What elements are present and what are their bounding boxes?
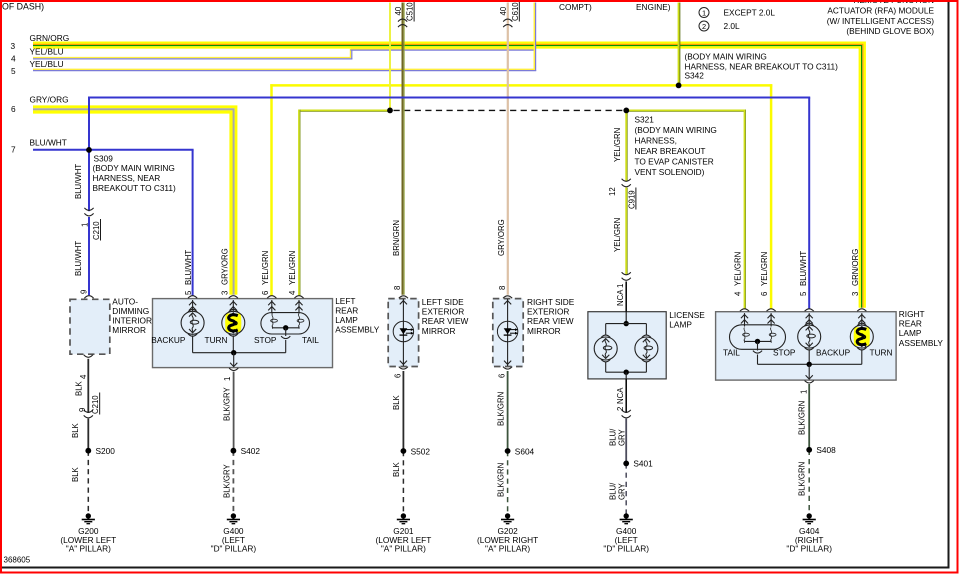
right rear lamp pin 6 entry chevrons (768, 313, 775, 326)
left rear lamp internal bus (193, 335, 286, 352)
svg-text:DIMMING: DIMMING (112, 306, 149, 316)
svg-text:1: 1 (799, 390, 808, 394)
svg-text:ASSEMBLY: ASSEMBLY (899, 338, 944, 348)
left rear lamp stadium inner tie with junction (273, 325, 300, 336)
svg-text:YEL/BLU: YEL/BLU (30, 47, 64, 57)
svg-text:ENGINE): ENGINE) (636, 2, 671, 12)
label license lamp (669, 310, 705, 330)
ground G202 symbol (501, 513, 514, 523)
left rear lamp TAIL filament (297, 314, 304, 329)
svg-text:YEL/GRN: YEL/GRN (734, 252, 743, 286)
wire YEL/BLU circuit 4: lower-left run from pin 4 (33, 58, 352, 59)
svg-text:EXTERIOR: EXTERIOR (422, 307, 464, 317)
wire BLU/GRY: dashed from S401 to ground G400 (625, 463, 627, 513)
svg-text:REAR VIEW: REAR VIEW (422, 316, 469, 326)
label pin 6 YEL/GRN right lamp (760, 252, 769, 296)
right rear lamp BACKUP bulb (798, 323, 821, 350)
black inner frame bottom (0, 567, 950, 569)
ground G404 symbol (803, 513, 816, 523)
svg-text:BLK/GRN: BLK/GRN (797, 401, 806, 435)
svg-text:MIRROR: MIRROR (112, 325, 146, 335)
right rear lamp exit arc below box (805, 381, 814, 384)
svg-text:1: 1 (702, 9, 706, 18)
label ground G202 (477, 526, 538, 554)
label splice S321 note (635, 115, 717, 178)
svg-text:LEFT: LEFT (335, 296, 355, 306)
svg-text:S604: S604 (515, 447, 535, 457)
svg-text:3: 3 (221, 291, 230, 295)
inline connector below license lamp (622, 410, 631, 418)
wire YEL/BLU: vertical pair from page top at x=534.5 (534, 3, 535, 71)
ground G400 symbol (left D pillar, under S401) (620, 513, 633, 523)
label ground G200 (60, 526, 116, 554)
label wire 5 YEL/BLU (11, 59, 64, 76)
svg-text:BLK/GRN: BLK/GRN (797, 462, 806, 496)
right rear lamp pin 4 entry arc (740, 309, 749, 312)
svg-text:VENT SOLENOID): VENT SOLENOID) (635, 167, 705, 177)
svg-text:OF DASH): OF DASH) (2, 2, 44, 12)
right rear lamp internal bus junction dot (807, 362, 812, 367)
auto-dimming mirror pin 9 entry arc (84, 296, 93, 299)
right rear lamp TURN bulb highlight (854, 327, 870, 346)
wire BLU/WHT: long horizontal run y=97.5 to right rear lamp (88, 97, 810, 99)
circled note 2 (699, 21, 709, 31)
svg-text:YEL/GRN: YEL/GRN (613, 128, 622, 162)
svg-text:YEL/GRN: YEL/GRN (261, 251, 270, 285)
svg-text:GRY/ORG: GRY/ORG (497, 219, 506, 256)
wire NCA: license lamp pin 2 down to inline connector (625, 379, 627, 413)
left rear lamp BACKUP bulb (181, 309, 204, 336)
wire BLU/WHT: branch from S309 to left rear lamp (89, 149, 194, 151)
svg-text:C510: C510 (406, 2, 415, 21)
svg-text:S309: S309 (94, 154, 114, 164)
label left side exterior rear view mirror (422, 297, 469, 336)
svg-text:(W/ INTELLIGENT ACCESS): (W/ INTELLIGENT ACCESS) (827, 16, 935, 26)
svg-text:NCA: NCA (616, 289, 625, 306)
svg-text:NCA: NCA (616, 387, 625, 404)
splice S321 junction dot (623, 108, 629, 114)
svg-text:S502: S502 (411, 447, 431, 457)
left mirror pin 6 exit arc (399, 367, 408, 370)
svg-text:7: 7 (11, 144, 16, 154)
svg-text:S321: S321 (635, 115, 655, 125)
right rear lamp stadium exit arc (753, 351, 762, 354)
wire BLK: dashed from S200 to ground G200 (87, 451, 89, 514)
svg-text:BACKUP: BACKUP (151, 335, 186, 345)
right rear lamp TAIL/STOP dual filament housing (730, 325, 786, 350)
wire YEL/GRN: from connector C919 down to inline connector (625, 188, 627, 275)
label connector C510 (394, 2, 415, 22)
svg-text:5: 5 (184, 290, 193, 295)
right rear lamp STOP filament (769, 328, 776, 343)
svg-text:BLU/WHT: BLU/WHT (74, 164, 83, 199)
svg-text:BLK: BLK (74, 380, 83, 396)
wire BLK/GRN: right mirror pin 6 to splice S604 (507, 371, 509, 451)
right rear lamp TURN bold filament (857, 328, 866, 346)
splice S604 junction dot (505, 448, 511, 454)
svg-text:BLK/GRY: BLK/GRY (222, 464, 231, 498)
right mirror pin 6 exit arc (503, 367, 512, 370)
svg-text:S402: S402 (241, 446, 261, 456)
svg-text:GRN/ORG: GRN/ORG (30, 33, 70, 43)
svg-text:TO EVAP CANISTER: TO EVAP CANISTER (635, 157, 714, 167)
svg-text:BLU/WHT: BLU/WHT (30, 138, 67, 148)
svg-text:C610: C610 (511, 2, 520, 21)
left rear lamp internal bus junction dot (231, 350, 236, 355)
svg-text:BLU/WHT: BLU/WHT (799, 251, 808, 286)
left rear lamp pin 6 entry chevrons (268, 300, 275, 314)
svg-text:BLK: BLK (392, 461, 401, 477)
wire GRY/ORG: vertical feed to right side mirror pin 8 (507, 3, 509, 295)
right rear lamp TURN bulb (850, 323, 873, 350)
svg-text:LAMP: LAMP (669, 320, 692, 330)
right mirror LED symbol (497, 321, 518, 341)
splice S402 junction dot (231, 448, 237, 454)
wire (not shown) dashed link between splices (394, 109, 627, 111)
label pin 1 BLK/GRY left lamp exit (222, 377, 232, 421)
svg-text:RIGHT: RIGHT (899, 309, 925, 319)
svg-text:4: 4 (288, 290, 297, 295)
svg-text:NEAR BREAKOUT: NEAR BREAKOUT (635, 146, 706, 156)
right rear lamp assembly box (716, 312, 897, 380)
left rear lamp exit arrow pin 1 (230, 353, 237, 367)
wire YEL/GRN splice S321: segment to left rear lamp TAIL pin 4 (299, 109, 390, 111)
left rear lamp exit arc below box (229, 368, 238, 371)
wire BLK: dashed from S502 to ground G201 (402, 451, 404, 514)
wire YEL/BLU circuit 5: lower run to pin 5 (33, 69, 536, 70)
right rear lamp TAIL filament (743, 328, 750, 343)
circled note 1 (699, 8, 709, 18)
svg-text:HARNESS,: HARNESS, (635, 136, 677, 146)
wire BRN/GRN: vertical feed to left side mirror pin 8 (403, 3, 405, 295)
left rear lamp TURN bulb (222, 309, 245, 336)
svg-text:3: 3 (11, 41, 16, 51)
svg-text:9: 9 (78, 408, 87, 412)
svg-text:MIRROR: MIRROR (422, 326, 456, 336)
svg-text:1: 1 (80, 223, 89, 227)
svg-text:2.0L: 2.0L (724, 21, 741, 31)
svg-text:C919: C919 (627, 190, 636, 209)
left rear lamp pin 3 entry arc (229, 296, 238, 299)
svg-text:BREAKOUT TO C311): BREAKOUT TO C311) (93, 183, 177, 193)
svg-text:BACKUP: BACKUP (816, 347, 851, 357)
right rear lamp pin 5 entry arc (805, 309, 814, 312)
ground G201 symbol (397, 513, 410, 523)
label ground G201 (376, 526, 432, 554)
label right rear lamp assembly (899, 309, 944, 348)
left rear lamp stadium exit arc (281, 336, 290, 339)
right rear lamp exit arrow pin 1 (806, 364, 813, 379)
license lamp box (588, 312, 666, 379)
label pin 4 YEL/GRN right lamp (734, 252, 743, 296)
right rear lamp pin 4 entry chevrons (741, 313, 748, 326)
svg-text:"D" PILLAR): "D" PILLAR) (786, 544, 832, 554)
label ground G404 (786, 526, 832, 554)
svg-text:4: 4 (734, 291, 743, 296)
label pin 5 BLU/WHT right lamp (799, 251, 808, 296)
svg-text:(BODY MAIN WIRING: (BODY MAIN WIRING (685, 52, 767, 62)
label BLU/GRY below S401 (608, 482, 626, 500)
svg-text:2: 2 (702, 22, 706, 31)
left mirror LED symbol (393, 321, 414, 341)
wire YEL/GRN: highlighted vertical to right rear lamp STOP pin 6 (770, 84, 773, 309)
connector C210 upper symbol (84, 208, 93, 216)
svg-text:GRY/ORG: GRY/ORG (30, 94, 69, 104)
svg-text:"A" PILLAR): "A" PILLAR) (66, 544, 111, 554)
svg-text:1: 1 (223, 377, 232, 381)
wire BLK/GRN: dashed from S408 to ground G404 (808, 450, 810, 514)
ground G200 symbol (82, 513, 95, 523)
svg-text:12: 12 (608, 187, 617, 196)
label left rear lamp assembly (335, 296, 380, 335)
label pin 2 NCA license lamp exit (616, 387, 625, 411)
svg-text:EXTERIOR: EXTERIOR (527, 307, 569, 317)
splice S309 junction dot (86, 147, 92, 153)
label auto-dimming interior mirror (112, 296, 152, 335)
label wire 3 GRN/ORG (11, 33, 70, 51)
wire GRN/ORG circuit 3: horizontal run and drop to right rear lamp TURN pin 3 (33, 43, 865, 308)
left rear lamp STOP filament (271, 314, 278, 329)
svg-text:"D" PILLAR): "D" PILLAR) (603, 544, 649, 554)
left rear lamp pin 5 entry chevrons (189, 300, 196, 312)
left rear lamp pin 6 entry arc (267, 296, 276, 299)
svg-text:BLK: BLK (71, 422, 80, 438)
left rear lamp pin 4 entry chevrons (295, 300, 302, 314)
svg-text:LICENSE: LICENSE (669, 310, 705, 320)
splice S502 junction dot (401, 448, 407, 454)
svg-text:HARNESS, NEAR: HARNESS, NEAR (93, 173, 161, 183)
svg-text:ACTUATOR (RFA) MODULE: ACTUATOR (RFA) MODULE (827, 6, 934, 16)
label right side exterior rear view mirror (527, 297, 575, 336)
license lamp internal top tie (606, 312, 647, 335)
right mirror internal wire with arrows (504, 299, 511, 366)
svg-text:GRY: GRY (617, 428, 626, 446)
connector C610 symbol (503, 19, 512, 27)
svg-text:BRN/GRN: BRN/GRN (392, 220, 401, 256)
svg-text:C210: C210 (91, 395, 100, 414)
svg-text:LAMP: LAMP (335, 315, 358, 325)
left rear lamp pin 5 entry arc (188, 296, 197, 299)
left mirror pin 8 entry arc (399, 296, 408, 299)
auto-dimming mirror pin 4 exit arc (84, 355, 93, 358)
svg-text:(BODY MAIN WIRING: (BODY MAIN WIRING (93, 163, 175, 173)
auto-dimming interior mirror box (70, 299, 110, 354)
ground G400 symbol (left D pillar, under S402) (227, 513, 240, 523)
splice S401 junction dot (623, 461, 629, 467)
svg-text:REAR VIEW: REAR VIEW (527, 316, 574, 326)
label wire 7 BLU/WHT (11, 138, 67, 155)
wire BLK/GRN: right rear lamp pin 1 to splice S408 (808, 384, 810, 450)
svg-text:3: 3 (851, 292, 860, 296)
svg-text:"A" PILLAR): "A" PILLAR) (485, 544, 530, 554)
wire BLU/GRY: from connector to splice S401 (625, 419, 627, 464)
right rear lamp internal bus (758, 349, 862, 364)
label ground G400 under S402 (211, 526, 257, 554)
left side exterior rear view mirror box (388, 299, 418, 367)
svg-text:YEL/GRN: YEL/GRN (288, 251, 297, 285)
svg-text:S342: S342 (685, 71, 705, 81)
svg-text:6: 6 (498, 374, 507, 378)
wire BLK/GRY: left rear lamp pin 1 to splice S402 (233, 372, 235, 451)
right rear lamp pin 3 entry chevrons (858, 313, 865, 325)
splice S200 junction dot (85, 448, 91, 454)
wire BLK/GRN: dashed from S604 to ground G202 (507, 451, 509, 514)
svg-text:5: 5 (799, 291, 808, 296)
svg-text:40: 40 (394, 6, 403, 15)
label wire 6 GRY/ORG (11, 94, 69, 114)
license lamp internal bottom tie (606, 362, 647, 379)
svg-text:5: 5 (11, 66, 16, 76)
svg-text:1: 1 (616, 284, 625, 288)
connector C919 symbol (622, 179, 631, 187)
wire YEL/GRN: highlighted vertical to left rear lamp STOP pin 6 (270, 84, 273, 296)
svg-text:INTERIOR: INTERIOR (112, 316, 152, 326)
svg-text:8: 8 (498, 286, 507, 290)
left rear lamp pin 4 entry arc (294, 296, 303, 299)
svg-text:TURN: TURN (870, 347, 893, 357)
svg-text:HARNESS, NEAR BREAKOUT TO C311: HARNESS, NEAR BREAKOUT TO C311) (685, 62, 839, 72)
right mirror pin 8 entry arc (503, 296, 512, 299)
svg-text:2: 2 (616, 407, 625, 411)
label pin 4 YEL/GRN left lamp (288, 251, 297, 295)
label pin 5 BLU/WHT left lamp (184, 250, 193, 295)
wire YEL/GRN: from splice S321 down to connector C919 (625, 110, 627, 181)
svg-text:EXCEPT 2.0L: EXCEPT 2.0L (724, 8, 776, 18)
wire BLU/WHT: from S309 down to connector C210 (88, 150, 90, 212)
wire BLK: left mirror pin 6 to splice S502 (402, 371, 404, 451)
svg-text:REAR: REAR (335, 306, 358, 316)
splice S342 junction dot (676, 83, 682, 89)
label ground G400 under S401 (603, 526, 649, 554)
svg-text:C210: C210 (92, 221, 101, 240)
svg-text:6: 6 (760, 292, 769, 296)
right side exterior rear view mirror box (493, 299, 523, 367)
wire YEL/BLU circuit 4: jog up at x=351 (351, 49, 352, 59)
svg-text:RIGHT SIDE: RIGHT SIDE (527, 297, 575, 307)
svg-text:COMPT): COMPT) (559, 2, 592, 12)
svg-text:(BODY MAIN WIRING: (BODY MAIN WIRING (635, 125, 717, 135)
wire YEL/GRN: vertical drop to right rear lamp TAIL pin 4 (744, 110, 746, 310)
left rear lamp assembly box (153, 299, 333, 368)
svg-text:MIRROR: MIRROR (527, 326, 561, 336)
wire YEL/BLU circuit 4: upper run under circuit 3 band (351, 49, 537, 50)
wire YEL/GRN splice S342: highlighted horizontal run y=85 (270, 84, 772, 87)
wire YEL/GRN splice S321: segment toward right rear lamp TAIL pin 4 (626, 109, 745, 111)
label pin 3 GRY/ORG left lamp (221, 248, 230, 295)
wire YEL/GRN: vertical drop to left rear lamp TAIL pin 4 (298, 110, 300, 297)
left mirror internal wire with arrows (400, 299, 407, 366)
svg-text:BLU/WHT: BLU/WHT (74, 241, 83, 276)
wire YEL/GRN: vertical from top of page at x=390 to splice node (389, 3, 391, 111)
wire NCA: black lead into license lamp pin 1 (625, 282, 627, 312)
svg-text:TAIL: TAIL (723, 347, 740, 357)
svg-text:REAR: REAR (899, 319, 922, 329)
black inner frame vertical right (948, 2, 950, 569)
splice S408 junction dot (806, 447, 812, 453)
inline connector above license lamp (622, 272, 631, 280)
license lamp right bulb (635, 335, 658, 362)
left rear lamp TURN bold filament (229, 315, 238, 333)
svg-text:YEL/GRN: YEL/GRN (760, 252, 769, 286)
wire GRY/ORG circuit 6: horizontal run and drop to left rear lamp TURN pin 3 (33, 107, 236, 295)
wire BLK/GRY: dashed from S402 to ground G400 (232, 451, 234, 514)
right rear lamp pin 6 entry arc (767, 309, 776, 312)
left rear lamp pin 3 entry chevrons (230, 300, 237, 312)
splice junction dot at x=390 (387, 108, 393, 114)
svg-text:TAIL: TAIL (302, 335, 319, 345)
svg-text:GRY: GRY (617, 482, 626, 500)
wire BLK: auto-dimming mirror pin 4 down to connector C210 (87, 359, 89, 413)
svg-text:S408: S408 (816, 445, 836, 455)
svg-text:BLU/WHT: BLU/WHT (184, 250, 193, 285)
left rear lamp TURN bulb highlight (225, 314, 241, 333)
svg-text:AUTO-: AUTO- (112, 296, 138, 306)
svg-text:"A" PILLAR): "A" PILLAR) (381, 544, 426, 554)
svg-text:6: 6 (11, 104, 16, 114)
svg-text:BLU/: BLU/ (608, 428, 617, 446)
svg-text:368605: 368605 (4, 556, 31, 565)
svg-text:STOP: STOP (254, 335, 277, 345)
wire BLU/WHT: vertical drop to left rear lamp BACKUP pin 5 (192, 150, 194, 296)
label pin 6 YEL/GRN left lamp (261, 251, 270, 295)
svg-text:STOP: STOP (773, 347, 796, 357)
svg-text:6: 6 (261, 291, 270, 295)
svg-text:GRN/ORG: GRN/ORG (851, 249, 860, 286)
label splice S342 note (685, 52, 839, 81)
left rear lamp STOP/TAIL dual filament housing (261, 313, 310, 334)
connector C510 symbol (398, 19, 407, 27)
svg-text:BLK/GRN: BLK/GRN (496, 463, 505, 497)
svg-text:9: 9 (80, 290, 89, 294)
right rear lamp stadium inner tie with junction (745, 339, 772, 351)
svg-text:GRY/ORG: GRY/ORG (221, 248, 230, 285)
label wire 4 YEL/BLU (11, 47, 64, 64)
label pin 1 NCA license lamp (616, 284, 625, 306)
svg-text:4: 4 (79, 374, 88, 379)
label pin 1 BLK/GRN right lamp exit (797, 390, 808, 435)
right rear lamp pin 5 entry chevrons (806, 313, 813, 324)
wire YEL/GRN: vertical feed from engine compartment top at x=679 (678, 3, 680, 86)
svg-text:BLK/GRN: BLK/GRN (496, 392, 505, 426)
label splice S309 note (93, 154, 177, 194)
svg-text:8: 8 (393, 286, 402, 290)
label BLU/GRY above S401 (608, 428, 626, 446)
label RFA module block (827, 0, 935, 36)
svg-text:BLU/: BLU/ (608, 482, 617, 500)
connector C210 lower symbol (84, 410, 93, 418)
right rear lamp pin 3 entry arc (857, 309, 866, 312)
wire BLU/WHT: from C210 down to auto-dimming mirror pin 9 (88, 217, 90, 295)
wire BLU/WHT: splice S309 riser up to y=97.5 (88, 98, 90, 152)
svg-text:BLK/GRY: BLK/GRY (222, 387, 231, 421)
svg-text:(BEHIND GLOVE BOX): (BEHIND GLOVE BOX) (846, 26, 934, 36)
wire BLK: from C210 to splice S200 (87, 419, 89, 451)
svg-text:40: 40 (499, 6, 508, 15)
svg-text:4: 4 (11, 53, 16, 63)
svg-text:YEL/BLU: YEL/BLU (30, 59, 64, 69)
label connector C610 (499, 2, 520, 22)
svg-text:LEFT SIDE: LEFT SIDE (422, 297, 464, 307)
label connector C919 (608, 187, 636, 209)
svg-text:S200: S200 (96, 446, 116, 456)
wire BLU/WHT: vertical drop to right rear lamp BACKUP pin 5 (808, 98, 810, 310)
svg-text:ASSEMBLY: ASSEMBLY (335, 325, 380, 335)
svg-text:TURN: TURN (205, 335, 228, 345)
label pin 3 GRN/ORG right lamp (851, 249, 860, 296)
svg-text:BLK: BLK (392, 394, 401, 410)
svg-text:YEL/GRN: YEL/GRN (613, 218, 622, 252)
label connector C210 lower (78, 393, 100, 415)
